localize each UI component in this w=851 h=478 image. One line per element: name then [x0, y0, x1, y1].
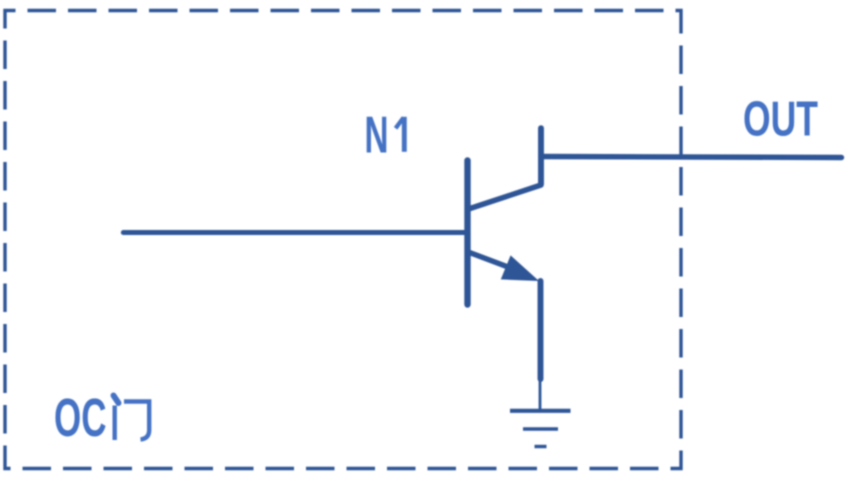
transistor N1 emitter diagonal	[470, 253, 517, 271]
ground bar 3	[535, 445, 547, 448]
wire output to OUT	[541, 157, 842, 158]
OC gate boundary dashed box	[5, 11, 681, 469]
transistor N1 collector vertical stub	[538, 128, 544, 184]
label N1 : digit 1 drawn (no foot serif)	[396, 117, 405, 152]
svg-text:OC: OC	[54, 388, 107, 448]
label men glyph (Chinese door character) drawn as strokes	[114, 396, 150, 441]
wire emitter vertical	[538, 281, 544, 379]
wire input (base lead)	[123, 230, 466, 235]
transistor N1 collector diagonal	[469, 185, 542, 209]
transistor N1 emitter arrowhead	[501, 255, 539, 281]
transistor N1 base bar	[464, 161, 470, 305]
ground stem	[539, 379, 542, 409]
ground bar 2	[523, 427, 558, 430]
ground bar 1	[510, 409, 571, 413]
svg-text:OUT: OUT	[743, 92, 818, 147]
svg-text:N: N	[365, 107, 389, 165]
